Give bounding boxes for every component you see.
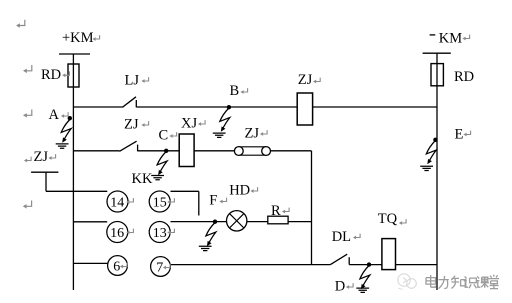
svg-text:A: A: [49, 107, 60, 123]
svg-text:C: C: [159, 128, 169, 144]
svg-text:RD: RD: [41, 67, 61, 83]
svg-text:R: R: [271, 203, 281, 219]
svg-text:E: E: [455, 127, 464, 143]
svg-text:F: F: [209, 193, 217, 209]
svg-text:16: 16: [110, 226, 124, 241]
svg-text:13: 13: [153, 226, 167, 241]
svg-text:14: 14: [110, 196, 124, 211]
svg-text:ZJ: ZJ: [34, 149, 49, 165]
svg-text:RD: RD: [454, 69, 474, 85]
svg-text:KK: KK: [132, 171, 153, 187]
svg-text:6: 6: [113, 260, 120, 275]
svg-text:ZJ: ZJ: [245, 126, 260, 142]
svg-text:KM: KM: [439, 31, 462, 47]
svg-text:TQ: TQ: [378, 211, 398, 227]
svg-text:7: 7: [156, 261, 163, 276]
svg-text:DL: DL: [332, 229, 351, 245]
svg-text:HD: HD: [229, 183, 250, 199]
svg-text:B: B: [230, 83, 240, 99]
svg-text:ZJ: ZJ: [124, 117, 139, 133]
svg-text:15: 15: [153, 196, 167, 211]
svg-text:ZJ: ZJ: [298, 72, 313, 88]
svg-text:D: D: [335, 279, 345, 295]
svg-text:LJ: LJ: [125, 73, 140, 89]
svg-text:+KM: +KM: [62, 30, 94, 46]
svg-text:XJ: XJ: [181, 116, 197, 132]
